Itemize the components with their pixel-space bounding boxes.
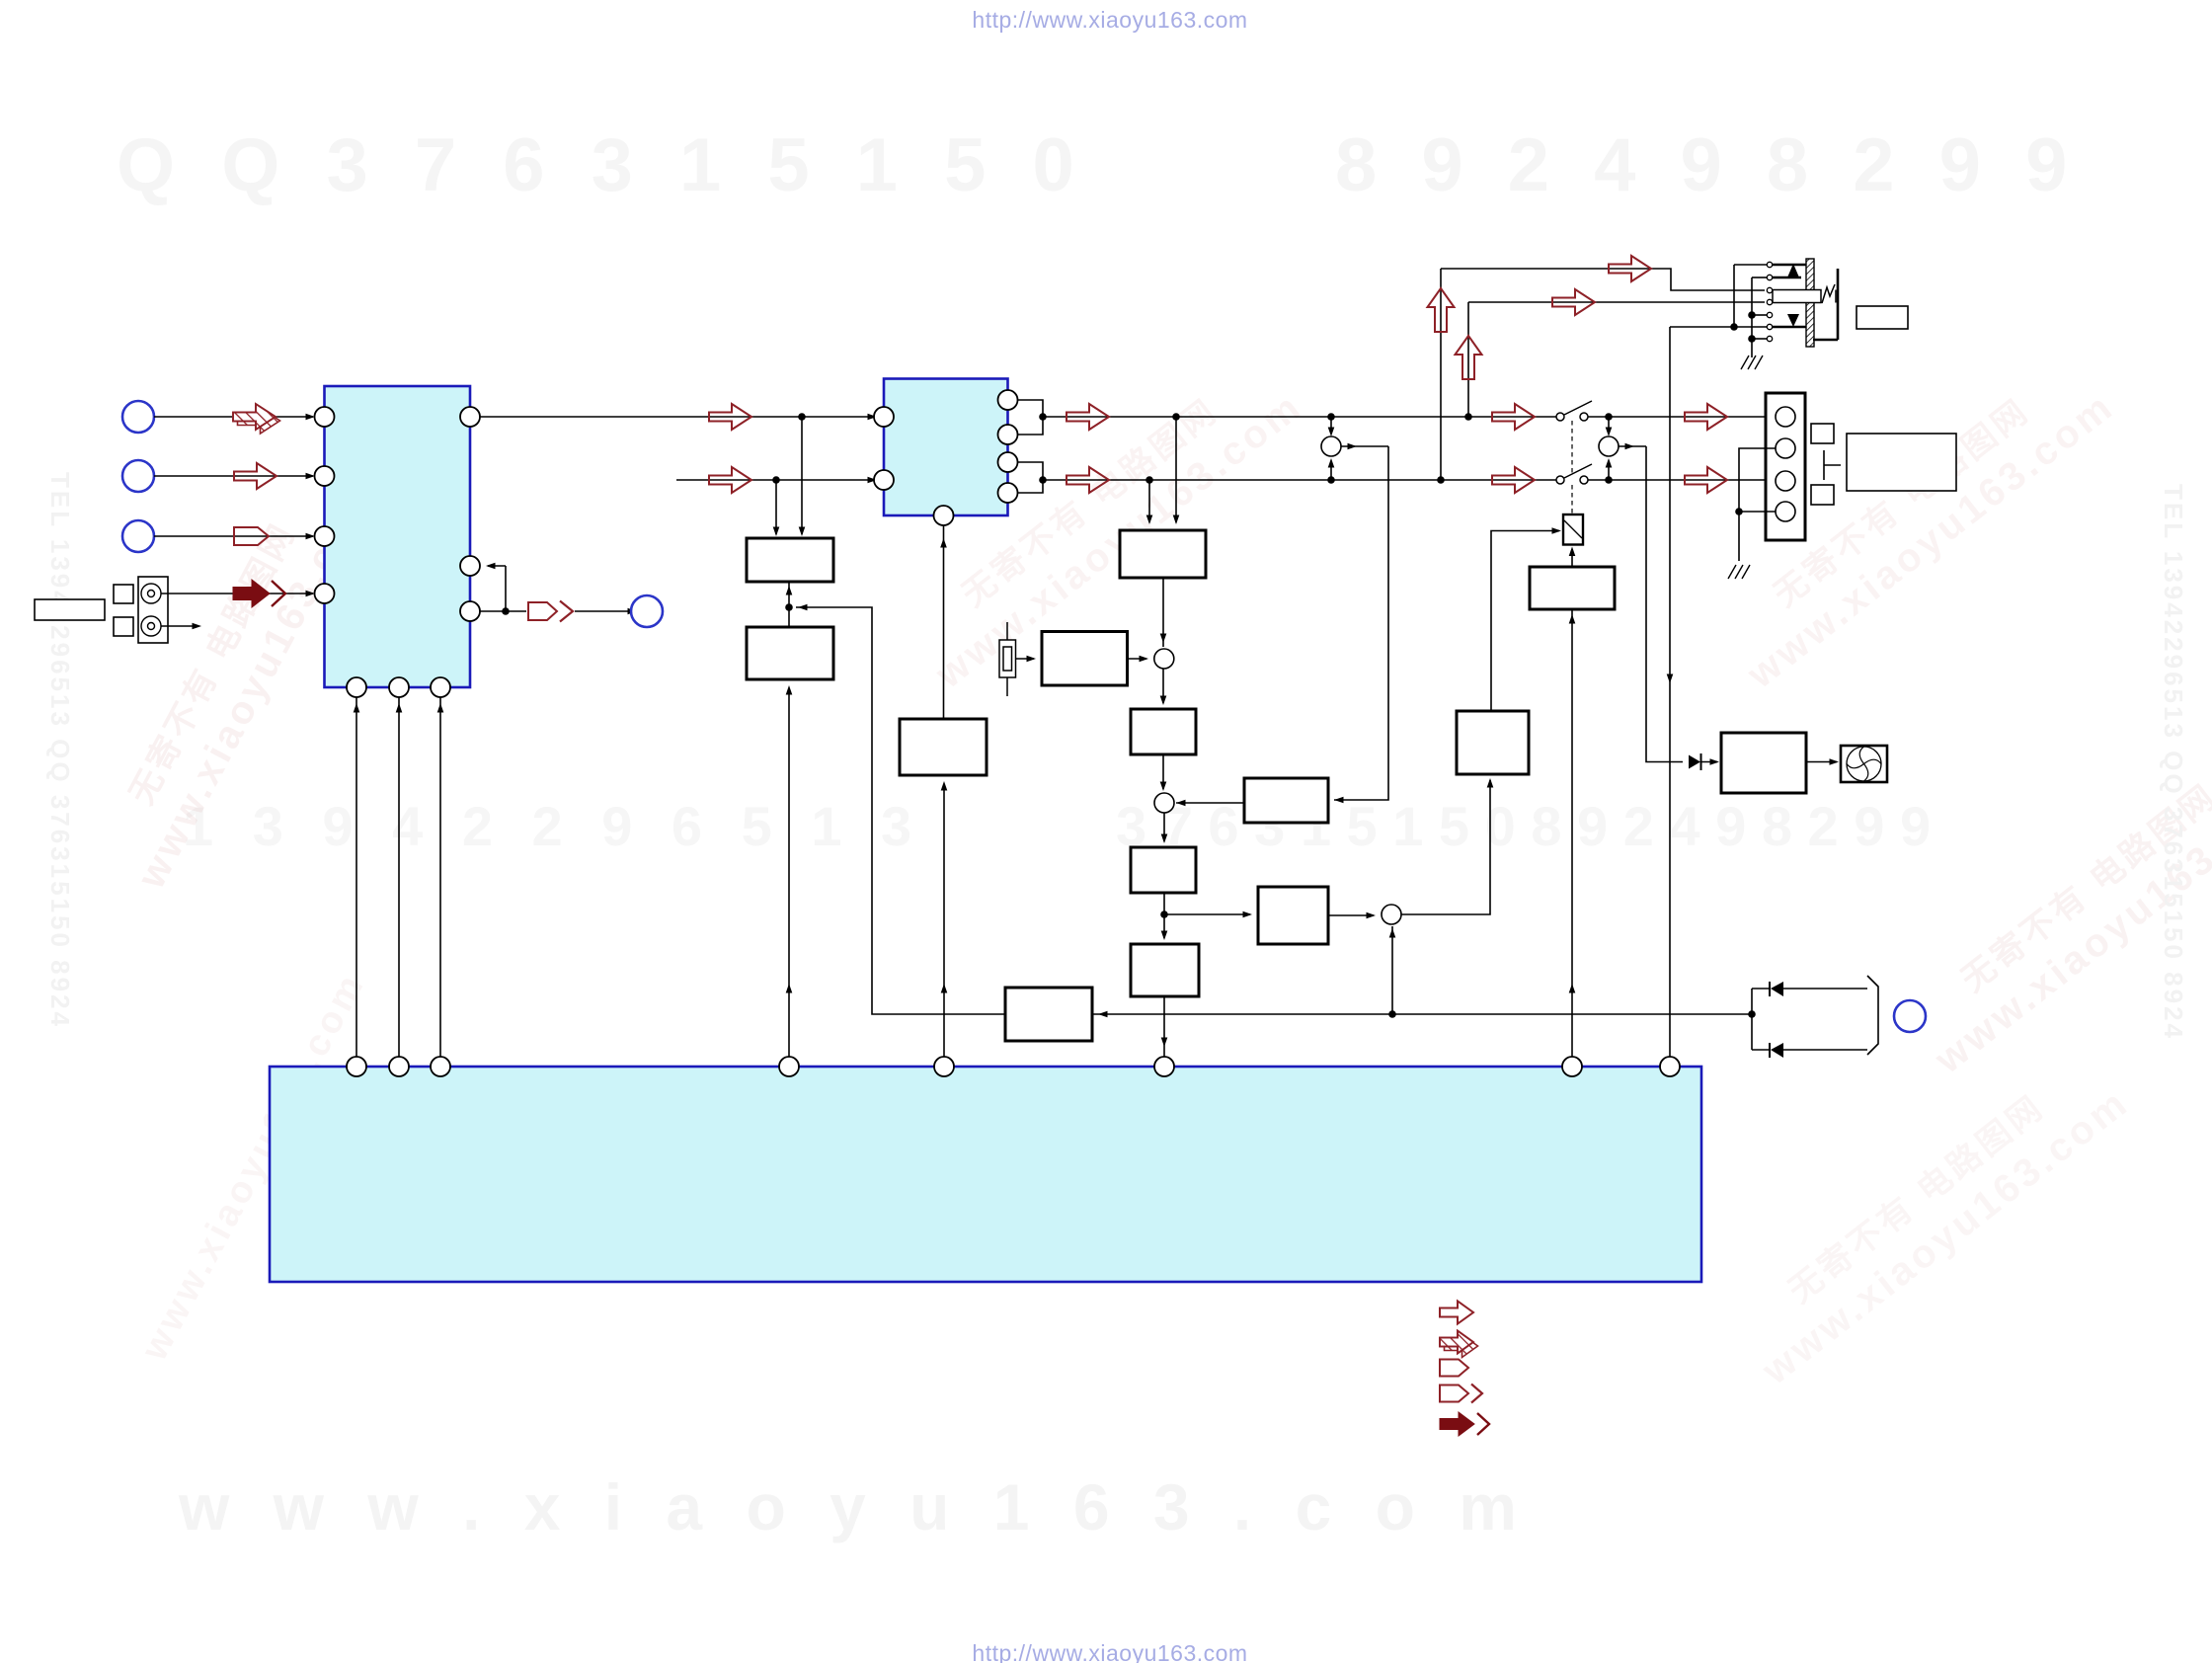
svg-text:8 9 2 4 9 8 2 9 9: 8 9 2 4 9 8 2 9 9 bbox=[1335, 123, 2079, 207]
svg-text:TEL 13942296513 QQ 37631515: TEL 13942296513 QQ 376315150 8924 bbox=[2159, 484, 2188, 1041]
svg-text:TEL 13942296513 QQ 37631515: TEL 13942296513 QQ 376315150 8924 bbox=[45, 472, 75, 1029]
svg-text:3 7 6 3 1 5 1 5 0 8 9 2: 3 7 6 3 1 5 1 5 0 8 9 2 4 9 8 2 9 9 bbox=[1116, 795, 1931, 857]
svg-text:1 3 9 4 2 2 9 6 5 1 3: 1 3 9 4 2 2 9 6 5 1 3 bbox=[183, 795, 923, 857]
svg-text:w w w . x i a o y u 1 6 3 . c: w w w . x i a o y u 1 6 3 . c o m bbox=[178, 1470, 1530, 1544]
svg-text:http://www.xiaoyu163.com: http://www.xiaoyu163.com bbox=[972, 1640, 1247, 1663]
svg-text:http://www.xiaoyu163.com: http://www.xiaoyu163.com bbox=[972, 7, 1247, 33]
svg-text:Q Q 3 7 6 3 1 5 1 5 0: Q Q 3 7 6 3 1 5 1 5 0 bbox=[117, 123, 1087, 207]
